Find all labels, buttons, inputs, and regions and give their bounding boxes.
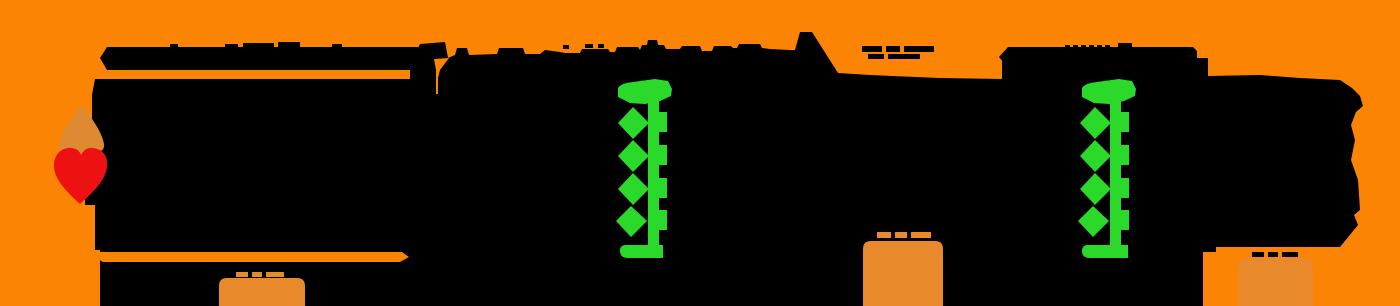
- small text specks above bar1: [170, 42, 342, 48]
- headline bar 1: [100, 47, 422, 70]
- solid black under bar 2 joining main mass: [1002, 58, 1208, 82]
- screw 1: [616, 79, 672, 258]
- headline bar 2: [999, 47, 1197, 68]
- orange gap stripe under bar1: [97, 70, 410, 79]
- red heart: [54, 148, 107, 204]
- button 1 (lower left): [219, 278, 305, 306]
- small text specks above bar2: [1065, 43, 1132, 48]
- orange stripe lower left: [95, 252, 409, 262]
- small text rows on orange gap (x 860-945): [862, 46, 934, 59]
- screw 2: [1078, 79, 1136, 258]
- orange wedge right of bar1: [434, 58, 449, 78]
- orange dash rows above buttons: [236, 232, 931, 277]
- flame above heart: [59, 107, 104, 153]
- button 3 (right): [1238, 258, 1313, 306]
- button 2 (centre): [863, 241, 943, 306]
- small text specks above main mass (centre): [563, 44, 604, 49]
